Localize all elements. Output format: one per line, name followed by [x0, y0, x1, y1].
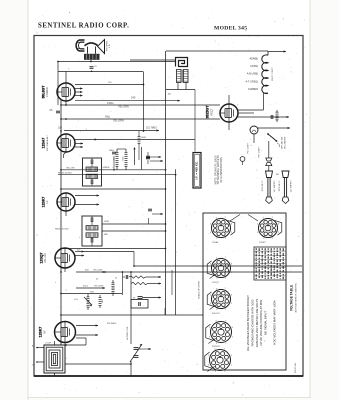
- svg-text:YEL-GRN: YEL-GRN: [118, 106, 129, 109]
- svg-text:117V 60 CY: 117V 60 CY: [262, 180, 264, 192]
- svg-text:REDDL A1 BLK: REDDL A1 BLK: [58, 171, 73, 174]
- svg-text:35Z5GT: 35Z5GT: [206, 105, 210, 119]
- svg-text:RED: RED: [104, 234, 109, 236]
- svg-text:SENTINEL RADIO CORP.: SENTINEL RADIO CORP.: [38, 23, 129, 30]
- svg-text:MET-KARB-ALT: MET-KARB-ALT: [46, 134, 49, 150]
- svg-text:SCALE OF OHMS: SCALE OF OHMS: [198, 280, 201, 299]
- svg-text:150Ω: 150Ω: [107, 101, 113, 105]
- svg-text:4 IN: 4 IN: [109, 44, 111, 48]
- svg-text:PILOT CIRCT: PILOT CIRCT: [272, 67, 274, 81]
- svg-text:12SQ7: 12SQ7: [40, 253, 44, 264]
- svg-text:2: 2: [224, 371, 225, 373]
- svg-text:12SK7: 12SK7: [39, 327, 43, 338]
- svg-text:LF: LF: [45, 200, 49, 203]
- svg-text:MODEL 345: MODEL 345: [214, 26, 247, 32]
- svg-text:4: 4: [210, 272, 211, 274]
- svg-text:6: 6: [216, 288, 217, 290]
- svg-text:8: 8: [232, 327, 233, 329]
- svg-text:YEL-GRN: YEL-GRN: [93, 270, 103, 272]
- svg-text:6: 6: [263, 217, 264, 219]
- svg-text:5: 5: [257, 224, 258, 226]
- svg-text:8: 8: [231, 294, 232, 296]
- svg-text:12SA7: 12SA7: [42, 138, 46, 149]
- svg-text:VOLTAGE TABLE: VOLTAGE TABLE: [290, 285, 294, 311]
- svg-text:240: 240: [131, 96, 136, 100]
- svg-text:GREEN: GREEN: [103, 167, 110, 169]
- svg-text:45Ω: 45Ω: [105, 115, 110, 119]
- svg-text:P.M.SPKR: P.M.SPKR: [106, 40, 108, 51]
- svg-text:3: 3: [263, 238, 264, 240]
- svg-text:50L6GT: 50L6GT: [42, 85, 46, 99]
- svg-text:A-B LP(B): A-B LP(B): [247, 73, 258, 76]
- svg-text:PRONGS AND CHASSIS WITH 1000: PRONGS AND CHASSIS WITH 1000: [250, 299, 254, 346]
- svg-text:7: 7: [272, 217, 273, 219]
- svg-text:5: 5: [209, 327, 210, 329]
- svg-text:JFD 25-440: JFD 25-440: [295, 362, 297, 373]
- svg-text:PLT LIGHT: PLT LIGHT: [259, 146, 261, 158]
- svg-text:1: 1: [231, 272, 232, 274]
- svg-text:YEL-GRN: YEL-GRN: [113, 120, 124, 123]
- svg-text:2: 2: [225, 278, 226, 280]
- svg-text:A-T LP(B1): A-T LP(B1): [246, 80, 259, 83]
- svg-text:3: 3: [216, 278, 217, 280]
- svg-text:ALL VOLTAGES READ BETWEEN SOCK: ALL VOLTAGES READ BETWEEN SOCKET: [246, 295, 250, 351]
- svg-text:I.F. = 455 KC.: I.F. = 455 KC.: [195, 161, 199, 180]
- svg-text:A DC VOLTAGES MAY VARY ±20%: A DC VOLTAGES MAY VARY ±20%: [272, 300, 276, 346]
- svg-text:50L6GT: 50L6GT: [212, 313, 221, 315]
- svg-text:331 7MEG: 331 7MEG: [146, 128, 157, 130]
- svg-text:12SK7: 12SK7: [259, 242, 266, 244]
- svg-text:2: 2: [225, 238, 226, 240]
- svg-text:RF: RF: [43, 330, 47, 334]
- svg-text:AER(B): AER(B): [250, 58, 259, 61]
- svg-text:3: 3: [216, 309, 217, 311]
- svg-text:PLT LIGHT: PLT LIGHT: [248, 142, 250, 154]
- svg-text:35Z5GT: 35Z5GT: [212, 346, 221, 348]
- svg-text:OHM-PER-VOLT METER LINE VOLTS: OHM-PER-VOLT METER LINE VOLTS: [255, 299, 259, 348]
- svg-text:8: 8: [231, 263, 232, 265]
- svg-text:2: 2: [225, 309, 226, 311]
- svg-text:7: 7: [225, 257, 226, 259]
- svg-text:VOL: VOL: [74, 299, 79, 301]
- svg-text:GREY: GREY: [104, 221, 110, 223]
- svg-text:5: 5: [210, 264, 211, 266]
- svg-text:JUMPER: JUMPER: [248, 88, 258, 91]
- svg-text:8: 8: [231, 355, 232, 357]
- svg-text:117 AC VOLUME CONTROL AT MIN: 117 AC VOLUME CONTROL AT MIN: [259, 300, 263, 346]
- svg-text:5: 5: [210, 224, 211, 226]
- svg-text:12SQ7: 12SQ7: [212, 282, 220, 284]
- svg-text:6: 6: [216, 257, 217, 259]
- svg-text:4: 4: [210, 232, 211, 234]
- svg-text:NO SIGNAL INPUT: NO SIGNAL INPUT: [264, 311, 268, 336]
- svg-text:AC SUPPLY: AC SUPPLY: [273, 180, 276, 192]
- svg-text:2M 7MEG: 2M 7MEG: [107, 323, 117, 325]
- svg-text:6: 6: [215, 348, 216, 350]
- svg-text:7: 7: [225, 217, 226, 219]
- svg-text:1: 1: [278, 232, 279, 234]
- svg-text:7: 7: [224, 348, 225, 350]
- svg-text:AC SUPPLY: AC SUPPLY: [290, 180, 293, 192]
- svg-text:RECT: RECT: [210, 108, 214, 115]
- svg-text:LOOP: LOOP: [45, 343, 52, 345]
- svg-text:A 2SPK COIL: A 2SPK COIL: [126, 326, 129, 340]
- svg-text:3MFD: 3MFD: [109, 150, 115, 152]
- svg-text:POWER: POWER: [45, 87, 49, 97]
- svg-text:710Ω: 710Ω: [122, 156, 125, 161]
- svg-text:117V 60 CY: 117V 60 CY: [279, 180, 281, 192]
- svg-text:6: 6: [216, 320, 217, 322]
- svg-text:3: 3: [216, 238, 217, 240]
- svg-text:DBL-DIO: DBL-DIO: [44, 253, 47, 263]
- svg-text:1: 1: [231, 364, 232, 366]
- svg-text:2: 2: [225, 343, 226, 345]
- svg-text:1: 1: [232, 336, 233, 338]
- svg-text:LP(B1): LP(B1): [250, 65, 258, 68]
- svg-text:8: 8: [278, 223, 279, 225]
- svg-text:3: 3: [216, 343, 217, 345]
- svg-text:1: 1: [231, 232, 232, 234]
- svg-text:7: 7: [225, 320, 226, 322]
- svg-text:4: 4: [257, 232, 258, 234]
- svg-text:2: 2: [272, 238, 273, 240]
- svg-text:OFF-ON SW: OFF-ON SW: [282, 136, 284, 149]
- svg-text:YEL-GRN: YEL-GRN: [94, 286, 104, 288]
- svg-text:YELLOW: YELLOW: [66, 167, 74, 169]
- svg-text:12SA7: 12SA7: [212, 241, 219, 244]
- svg-text:12SK7: 12SK7: [42, 197, 46, 208]
- svg-text:3: 3: [215, 371, 216, 373]
- svg-text:(BOTTOM VIEW OF CHASSIS): (BOTTOM VIEW OF CHASSIS): [294, 283, 297, 313]
- svg-text:7: 7: [225, 288, 226, 290]
- svg-text:OF ELIMINATOR NOS: OF ELIMINATOR NOS: [220, 157, 223, 183]
- svg-text:5: 5: [210, 295, 211, 297]
- svg-text:5: 5: [208, 355, 209, 357]
- svg-text:REDDL A1 BLK: REDDL A1 BLK: [55, 228, 70, 231]
- svg-text:4521: 4521: [83, 286, 89, 288]
- svg-text:ON CHASSIS: ON CHASSIS: [283, 136, 286, 149]
- svg-text:24M2: 24M2: [141, 137, 147, 139]
- svg-text:4: 4: [209, 337, 210, 339]
